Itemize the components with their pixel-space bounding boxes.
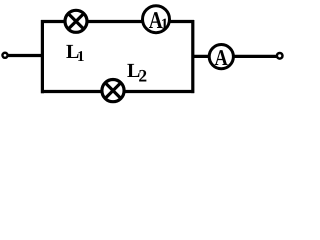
- terminal right: [277, 53, 283, 59]
- ammeter A1: [143, 6, 170, 34]
- wire: top branch, ammeter A1 to right vertical: [169, 20, 194, 23]
- wire: right vertical to ammeter A: [192, 55, 210, 58]
- wire: top branch, junction to lamp L1: [41, 20, 66, 23]
- wire: top branch, lamp L1 to ammeter A1: [86, 20, 145, 23]
- lamp L1: [65, 10, 87, 32]
- svg-text:1: 1: [161, 16, 169, 32]
- terminal left: [2, 53, 7, 58]
- wire: left terminal to junction: [8, 54, 43, 57]
- svg-text:2: 2: [138, 66, 147, 86]
- wire: left vertical junction bar: [41, 20, 44, 93]
- label L1: [66, 41, 85, 65]
- svg-text:1: 1: [77, 49, 85, 65]
- svg-text:A: A: [215, 45, 229, 70]
- wire: ammeter A to right terminal: [233, 55, 277, 58]
- wire: bottom branch, lamp L2 to right vertical: [123, 90, 194, 93]
- label L2: [127, 60, 147, 86]
- wire: right vertical junction bar: [191, 20, 194, 93]
- wire: bottom branch, junction to lamp L2: [41, 90, 103, 93]
- ammeter A: [209, 45, 233, 70]
- lamp L2: [102, 80, 124, 102]
